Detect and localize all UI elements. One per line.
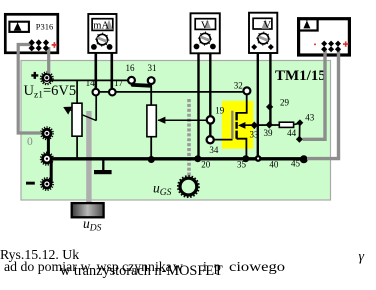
jumper 16-31 <box>133 83 150 88</box>
socket 40 on bus <box>255 155 262 162</box>
svg-text:33: 33 <box>250 130 260 140</box>
svg-text:14: 14 <box>86 78 96 88</box>
wire socket 34 to gate <box>212 139 233 141</box>
voltmeter V2 <box>249 13 277 53</box>
svg-text:32: 32 <box>234 80 243 90</box>
uDS gray probe bar <box>86 111 91 204</box>
wiper arrow of pot P <box>67 109 97 121</box>
wire V2 left lead to bus socket 40 <box>257 47 259 157</box>
ground bus <box>47 157 304 160</box>
resistor between 39 and 43 <box>279 122 293 127</box>
node 45 <box>300 155 308 163</box>
MOSFET substrate arrow <box>238 122 245 129</box>
wire V1 left lead to node 20 <box>197 47 199 157</box>
svg-text:20: 20 <box>201 160 211 170</box>
svg-text:35: 35 <box>237 160 247 170</box>
socket 16 <box>128 77 135 84</box>
socket 32 <box>243 87 250 94</box>
plus sign <box>31 72 38 79</box>
minus sign <box>26 182 35 185</box>
minus terminal (knurled) <box>41 178 53 190</box>
wire V1 right lead to socket 19/34 <box>209 47 211 137</box>
socket 14 <box>93 89 100 96</box>
svg-text:40: 40 <box>269 160 279 170</box>
+ terminal Uz1 (knurled) <box>41 72 53 84</box>
svg-text:TM1/15: TM1/15 <box>275 68 326 84</box>
TM1/15 terminal diamond bottom-left (over wire) <box>321 46 327 52</box>
MOSFET Q1 gate bar <box>231 111 233 139</box>
node 35 <box>242 155 249 162</box>
uGS gray dashed probe bar <box>187 99 191 177</box>
wiper line of R to socket 19 <box>158 119 208 121</box>
svg-text:17: 17 <box>114 78 124 88</box>
wiper arrowhead of R <box>157 117 165 124</box>
svg-text:V: V <box>201 19 209 31</box>
node 44 <box>296 136 303 143</box>
socket 17 <box>109 89 116 96</box>
svg-text:19: 19 <box>215 106 225 116</box>
wire socket 31 down to resistor R <box>150 84 152 107</box>
wire gray TM1/15 left lead to node 44 <box>303 50 326 139</box>
socket 19 <box>207 116 214 123</box>
svg-text:ciowego: ciowego <box>229 259 285 274</box>
svg-text:uDS: uDS <box>83 216 102 234</box>
ground stub symbol <box>102 161 104 171</box>
MOSFET drain lead <box>237 94 247 113</box>
instrument TM1/15 <box>299 19 350 55</box>
svg-text:31: 31 <box>148 63 157 73</box>
voltmeter V1 <box>191 13 220 53</box>
node 33 <box>251 122 258 130</box>
node 39 <box>266 121 273 129</box>
P316 terminal diamond bottom-left (over wire) <box>29 45 35 51</box>
wire V2 right lead to node 39 <box>269 47 271 125</box>
svg-text:γ: γ <box>359 250 365 265</box>
svg-text:45: 45 <box>291 159 301 169</box>
breadboard green panel <box>21 61 331 201</box>
node 20 <box>194 155 201 162</box>
svg-text:mA: mA <box>93 21 109 32</box>
wire resistor R bottom to bus <box>150 136 152 158</box>
MOSFET Q1 channel dash bulk <box>235 122 237 129</box>
svg-text:43: 43 <box>305 113 315 123</box>
wire Uz1 + to socket 16 <box>47 79 128 81</box>
wire mA left lead <box>95 47 98 89</box>
junction node below R <box>148 156 155 163</box>
svg-text:39: 39 <box>264 128 274 138</box>
MOSFET Q1 channel dash drain <box>235 112 237 120</box>
wire gray from P316 right terminal to + terminal <box>47 47 50 74</box>
uDS probe box <box>72 203 104 217</box>
uGS socket <box>178 176 199 197</box>
wire bus 14-17-32 <box>96 91 244 93</box>
node 29 <box>266 103 273 110</box>
wire node 43 down to node 44 <box>299 123 301 139</box>
socket 34 <box>207 136 214 143</box>
wire pot P top lead <box>76 80 78 104</box>
node 43 <box>297 119 304 126</box>
wire socket 14 down to wiper P <box>95 96 97 121</box>
MOSFET yellow highlight <box>222 101 253 149</box>
ammeter mA <box>88 14 116 53</box>
socket 31 <box>148 77 155 84</box>
svg-text:29: 29 <box>280 97 290 107</box>
TM1/15 terminal diamond bottom-right (over wire) <box>335 46 341 52</box>
svg-text:0: 0 <box>27 136 33 148</box>
svg-text:16: 16 <box>126 63 136 73</box>
terminal chain 0/-/bus vertical <box>47 133 50 157</box>
svg-text:V: V <box>263 19 271 31</box>
pot P body <box>72 103 82 136</box>
substrate wire to resistor 33-39 <box>243 124 280 126</box>
wire pot P bottom lead to bus <box>76 136 78 159</box>
instrument P316 <box>5 14 58 53</box>
P316 terminal diamond top-left (over wire) <box>29 39 35 45</box>
MOSFET source lead <box>237 139 247 158</box>
svg-text:Uz1=6V5: Uz1=6V5 <box>24 83 77 101</box>
terminal 0 (knurled) <box>41 127 53 139</box>
wire mA right lead <box>111 47 114 89</box>
bus terminal (knurled) <box>41 152 54 165</box>
wire gray from P316 left terminal to terminal 0 <box>18 45 41 134</box>
wire gray TM1/15 right lead to node 45 <box>307 50 339 159</box>
svg-text:44: 44 <box>287 128 297 138</box>
resistor R body <box>147 105 156 137</box>
svg-text:34: 34 <box>209 145 219 155</box>
svg-text:P316: P316 <box>36 21 53 31</box>
wire resistor to node 43 <box>294 123 299 124</box>
P316 terminal diamond bottom-right (over wire) <box>43 45 49 51</box>
svg-text:w tranzystorach n-MOSFET: w tranzystorach n-MOSFET <box>60 263 223 279</box>
MOSFET Q1 channel dash source <box>235 131 237 139</box>
